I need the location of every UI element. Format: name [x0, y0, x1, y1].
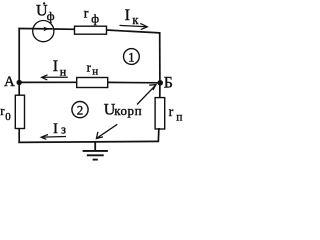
wire node A to r_n load: [19, 81, 77, 83]
svg-text:r: r: [169, 105, 174, 120]
wire r_0 down to bottom-left corner: [18, 129, 20, 143]
node A: [17, 80, 22, 85]
label A: [4, 74, 15, 90]
svg-text:Б: Б: [164, 75, 173, 92]
wire left vertical (top corner to node A): [18, 28, 20, 83]
wire right vertical (corner to node B): [159, 32, 161, 83]
resistor r_n (load): [77, 78, 108, 88]
EMF source U_f circle: [33, 21, 54, 42]
svg-text:I: I: [53, 121, 58, 137]
voltage arrow U_korp lower segment to ground wire: [96, 124, 117, 138]
resistor r_f: [75, 26, 107, 34]
svg-text:ф: ф: [47, 9, 55, 23]
wire node A down to r_0: [18, 83, 20, 96]
circled node number 1: [123, 49, 139, 65]
svg-text:п: п: [176, 112, 182, 124]
svg-text:ф: ф: [91, 12, 99, 26]
circled node number 2: [72, 102, 88, 118]
svg-text:I: I: [53, 58, 58, 75]
svg-text:к: к: [132, 13, 139, 27]
svg-text:I: I: [125, 7, 130, 24]
current arrow I_z: [41, 135, 66, 140]
label B (Cyrillic Be): [164, 75, 173, 92]
wire r_p down to bottom-right corner: [157, 128, 160, 142]
label I_z (ground current): [53, 121, 66, 137]
current arrow I_k: [120, 23, 148, 29]
wire from source to resistor r_f: [54, 28, 75, 30]
svg-text:r: r: [84, 7, 89, 22]
voltage arrow U_korp upper segment to node B: [137, 85, 156, 105]
label r_p: [169, 105, 183, 124]
wire r_n to node B: [108, 81, 160, 83]
label r_n: [87, 59, 99, 77]
source arrowhead inside circle: [43, 27, 49, 32]
label r_0: [0, 103, 11, 123]
svg-text:з: з: [61, 122, 66, 136]
label I_n load current: [53, 58, 67, 78]
svg-text:r: r: [87, 59, 92, 74]
label r_f: [84, 7, 99, 26]
wire top horizontal with source arrow: [18, 28, 52, 30]
svg-text:н: н: [92, 66, 98, 78]
label U_f with dot (phasor): [36, 2, 55, 23]
svg-text:2: 2: [77, 102, 84, 117]
label U_korp: [104, 102, 142, 119]
node B: [157, 80, 163, 86]
ground symbol: [83, 142, 108, 160]
wire from r_f to top-right corner: [107, 30, 160, 33]
wire node B down to r_p: [159, 83, 161, 98]
svg-text:н: н: [60, 64, 67, 78]
svg-text:корп: корп: [114, 103, 142, 118]
current arrow I_n: [42, 75, 68, 80]
svg-text:1: 1: [128, 49, 135, 64]
bottom wire: [18, 141, 159, 142]
label I_k: [125, 7, 140, 27]
resistor r_p: [155, 98, 165, 129]
svg-text:0: 0: [5, 111, 11, 123]
resistor r_0: [15, 95, 24, 128]
svg-text:А: А: [4, 74, 15, 90]
